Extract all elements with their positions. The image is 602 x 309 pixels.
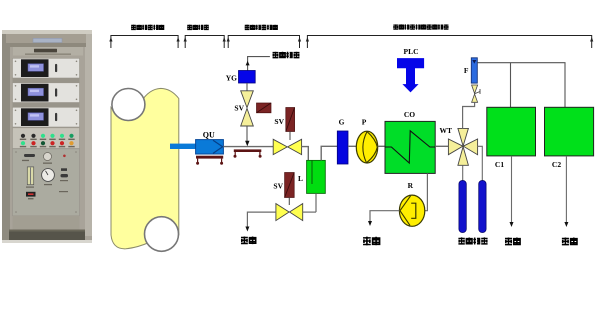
pipe break circle top bbox=[112, 89, 145, 121]
svg-text:F: F bbox=[464, 66, 469, 75]
heated stand under QU bbox=[196, 156, 223, 165]
process pipe (yellow duct with break circles) bbox=[111, 88, 179, 251]
gas-liquid separator L bbox=[307, 160, 326, 193]
svg-text:SV: SV bbox=[273, 182, 283, 191]
filter G bbox=[337, 131, 348, 164]
wire: L top to G bbox=[321, 146, 337, 160]
solenoid coil of SV1 bbox=[257, 103, 272, 113]
cooler CO bbox=[385, 121, 435, 173]
wire: P to CO bbox=[378, 145, 385, 147]
label 排水 bbox=[363, 237, 380, 246]
lower panel: flowmeter, gauge, display bbox=[13, 149, 80, 216]
cabinet top bar with label plate bbox=[6, 34, 86, 43]
svg-text:WT: WT bbox=[439, 126, 452, 135]
wire: V2 right to L bottom bbox=[303, 211, 316, 213]
label 排气 bbox=[505, 237, 520, 245]
label 排水 bbox=[241, 236, 256, 244]
wire: CO to WT bbox=[435, 145, 448, 147]
svg-text:QU: QU bbox=[203, 131, 215, 140]
wire: compressed air inlet bbox=[248, 57, 270, 71]
PLC block arrow bbox=[397, 58, 424, 92]
wire: WT bottom to cylinder B1 bbox=[462, 165, 464, 180]
4-way valve WT bbox=[448, 128, 477, 165]
wire: WT right to cylinder B2 bbox=[478, 146, 483, 180]
rotameter F bbox=[471, 58, 477, 83]
cabinet body bbox=[2, 30, 92, 240]
label 样气传输管路 bbox=[245, 25, 277, 30]
wire: C1 exhaust bbox=[511, 156, 513, 224]
wire: YG to SV1 bbox=[246, 83, 248, 93]
button/indicator panel bbox=[13, 128, 80, 149]
svg-text:L: L bbox=[298, 174, 303, 183]
label 排气 bbox=[562, 237, 577, 245]
wire: C2 exhaust bbox=[565, 156, 567, 224]
svg-text:C1: C1 bbox=[495, 160, 504, 169]
needle valve under F bbox=[472, 85, 480, 102]
svg-text:R: R bbox=[408, 181, 414, 190]
svg-text:P: P bbox=[362, 118, 367, 127]
svg-text:YG: YG bbox=[226, 73, 237, 82]
svg-text:G: G bbox=[339, 118, 345, 127]
wire: CO bottom to R bbox=[425, 173, 428, 210]
label 生产工艺管道 bbox=[131, 25, 163, 30]
svg-text:C2: C2 bbox=[552, 160, 561, 169]
probe QU body bbox=[196, 140, 224, 154]
bracket: sample transport line section bbox=[227, 36, 302, 49]
wire: F top to C1/C2 bbox=[477, 63, 565, 108]
analyzer C1 bbox=[487, 107, 536, 156]
solenoid coil above V1 bbox=[286, 108, 295, 132]
valve V1 (bowtie) on main line bbox=[273, 139, 301, 154]
cabinet door bottom + base bbox=[2, 216, 92, 243]
pressure regulator YG bbox=[239, 71, 256, 84]
label 预处理系统和分析仪器 bbox=[393, 24, 448, 29]
svg-text:SV: SV bbox=[234, 104, 244, 113]
wire: coil to V1 bbox=[289, 132, 291, 141]
svg-text:PLC: PLC bbox=[404, 47, 419, 56]
pipe break circle bottom bbox=[145, 217, 179, 252]
solenoid valve SV1 (vertical bowtie) bbox=[241, 91, 254, 126]
pump R bbox=[399, 195, 424, 226]
wire: probe stem bbox=[170, 144, 196, 149]
analyzer C2 bbox=[545, 107, 594, 156]
label 取样探头 bbox=[187, 25, 209, 30]
calibration gas cylinder B1 bbox=[459, 181, 466, 233]
wire: SV1 down to main line with arrow bbox=[246, 126, 248, 141]
bracket: sampling probe section bbox=[184, 36, 226, 49]
cabinet brand strip bbox=[10, 43, 86, 56]
wire: V1 to sampler L bbox=[302, 147, 309, 161]
bracket: production process pipeline section bbox=[109, 36, 179, 49]
wire: main line QU to valve V1 bbox=[223, 146, 273, 148]
calibration gas cylinder B2 bbox=[479, 181, 486, 233]
analyzer modules with LCD bbox=[13, 58, 80, 78]
label 标校系统 bbox=[458, 237, 487, 244]
wire: coil to V2 bbox=[288, 198, 290, 206]
bracket: pretreatment system and analyzers section bbox=[306, 36, 594, 49]
wire: G to P bbox=[348, 145, 356, 147]
pump P bbox=[356, 131, 377, 163]
drain valve V2 (bowtie) bbox=[276, 204, 303, 221]
wire: L bottom down bbox=[315, 193, 317, 212]
wire: R to drain bbox=[370, 211, 399, 223]
svg-text:SV: SV bbox=[274, 117, 284, 126]
solenoid coil above V2 bbox=[285, 173, 295, 198]
label 压缩空气 bbox=[273, 52, 300, 59]
heated line bracket under main line bbox=[234, 149, 262, 157]
svg-text:CO: CO bbox=[404, 110, 415, 119]
wire: needle valve to WT top bbox=[463, 102, 475, 128]
wire: V2 left to drain bbox=[247, 212, 276, 228]
